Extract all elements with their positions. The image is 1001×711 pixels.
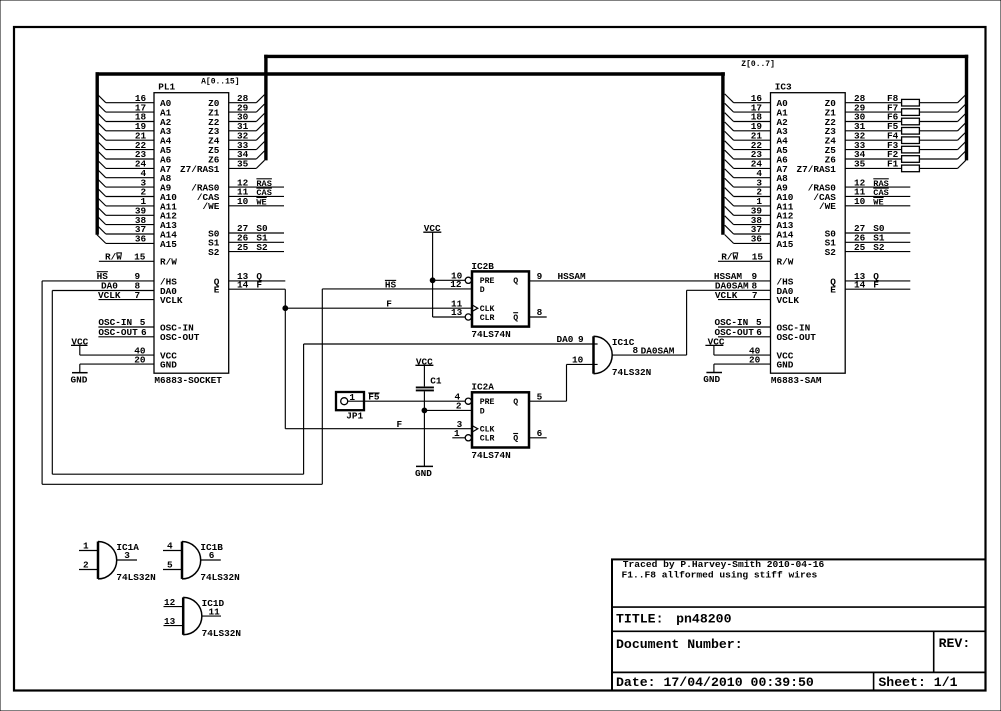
svg-text:D: D (480, 286, 485, 295)
svg-text:E: E (214, 285, 220, 296)
IC1D input pin 12 wire (164, 606, 184, 608)
svg-text:/WE: /WE (203, 201, 220, 212)
svg-text:8: 8 (135, 281, 141, 292)
net DA0SAM wire from IC1C pin 8 to IC3 DA0 pin 8 (612, 290, 770, 355)
svg-text:GND: GND (415, 468, 432, 479)
svg-text:HSSAM: HSSAM (558, 271, 587, 282)
svg-text:10: 10 (854, 196, 866, 207)
svg-text:20: 20 (134, 354, 146, 365)
IC1D output pin 11 stub (202, 615, 221, 617)
svg-text:Z7/RAS1: Z7/RAS1 (180, 164, 220, 175)
power VCC symbol at PL1 pin 40 (71, 336, 154, 356)
IC2B pin names PRE D CLK CLR Q Qbar (480, 277, 519, 323)
svg-text:IC1C: IC1C (612, 337, 635, 348)
svg-text:F: F (873, 279, 879, 290)
ground GND symbol at IC3 pin 20 (703, 354, 770, 385)
ground GND symbol at PL1 pin 20 (71, 354, 155, 385)
net stub F pin 14 (229, 279, 286, 290)
svg-text:4: 4 (167, 541, 173, 552)
net label DA0SAM at IC3 with pin 8 (715, 281, 758, 292)
svg-text:12: 12 (164, 597, 176, 608)
net stub WE pin 10 (229, 196, 284, 208)
junction at IC2A D branch (422, 408, 427, 413)
svg-text:10: 10 (572, 355, 584, 366)
svg-text:Z[0..7]: Z[0..7] (741, 60, 775, 69)
svg-text:Document Number:: Document Number: (616, 637, 743, 652)
svg-text:36: 36 (135, 234, 147, 245)
svg-text:CLR: CLR (480, 314, 495, 323)
svg-text:WE: WE (256, 198, 266, 208)
IC1B pin numbers 4 5 (167, 541, 173, 571)
svg-text:1: 1 (83, 541, 89, 552)
svg-text:15: 15 (752, 252, 764, 263)
IC1A input pin 1 wire (79, 550, 98, 552)
svg-text:35: 35 (854, 159, 866, 170)
IC3 OSC-OUT net label stub (715, 327, 771, 338)
IC3 OSC-IN net label stub (715, 317, 771, 328)
svg-text:25: 25 (237, 242, 249, 253)
net stub S2 pin 25 (229, 242, 284, 253)
IC3 R/W net label stub (718, 252, 771, 263)
svg-text:Q: Q (513, 314, 518, 323)
svg-text:25: 25 (854, 242, 866, 253)
svg-text:CLK: CLK (480, 426, 495, 435)
svg-text:PL1: PL1 (158, 82, 175, 93)
net label HS at PL1 (97, 271, 141, 282)
svg-text:OSC-OUT: OSC-OUT (160, 332, 200, 343)
svg-text:74LS32N: 74LS32N (116, 572, 156, 583)
svg-text:Sheet: 1/1: Sheet: 1/1 (878, 675, 957, 690)
svg-text:CLR: CLR (480, 435, 495, 444)
PL1 VCLK net label stub (98, 290, 154, 301)
IC3 net stub Q pin 13 (845, 271, 910, 282)
junction on net F at IC2B CLK branch (283, 306, 288, 311)
net label DA0 at PL1 (101, 281, 141, 292)
bus A[0..15] horizontal (96, 72, 725, 75)
OR gate IC1D (74LS32N) body (183, 597, 202, 634)
bus Z[0..7] vertical at IC3 F-links (965, 55, 968, 161)
svg-text:A15: A15 (777, 239, 794, 250)
IC2B Qbar pin 8 stub (529, 316, 547, 318)
IC2B CLR input bubble (465, 314, 471, 320)
IC1B input pin 4 wire (163, 550, 182, 552)
svg-text:GND: GND (777, 360, 794, 371)
IC1D pin numbers 12 13 (164, 597, 176, 627)
svg-text:13: 13 (164, 616, 176, 627)
PL1 address pins A0-A15 with bus entries, pin numbers 16..36 (97, 93, 177, 250)
svg-text:74LS74N: 74LS74N (471, 329, 511, 340)
svg-text:E: E (830, 285, 836, 296)
svg-text:Q: Q (513, 277, 518, 286)
svg-text:S2: S2 (256, 242, 268, 253)
IC3 net stub S2 pin 25 (845, 242, 910, 253)
svg-text:Traced by P.Harvey-Smith 2010-: Traced by P.Harvey-Smith 2010-04-16 (623, 559, 825, 570)
IC3 net stub CAS pin 11 (845, 187, 910, 199)
ground GND symbol below C1 (415, 466, 433, 479)
PL1 left pins R/W /HS DA0 VCLK OSC VCC GND names (160, 257, 200, 371)
svg-text:20: 20 (749, 354, 761, 365)
bus Z[0..7] vertical at PL1 (264, 55, 267, 161)
svg-text:3: 3 (124, 550, 130, 561)
IC3 VCLK net label stub (715, 290, 771, 301)
bus A[0..15] vertical at IC3 (721, 72, 724, 235)
svg-text:PRE: PRE (480, 398, 495, 407)
svg-text:OSC-OUT: OSC-OUT (98, 327, 138, 338)
OR gate IC1C (74LS32N) body (594, 336, 613, 373)
wire VCC to capacitor C1 (423, 365, 425, 386)
net stub RAS pin 12 (229, 177, 284, 189)
svg-text:F1: F1 (887, 159, 899, 170)
PL1 output pins Z0-Z7/RAS1 to bus Z, pin numbers 28..35 (229, 93, 265, 170)
svg-text:F: F (386, 298, 392, 309)
svg-text:IC2B: IC2B (471, 261, 494, 272)
IC2A PRE input bubble (465, 398, 471, 404)
IC3 net stub WE pin 10 (845, 196, 910, 208)
IC2A CLK edge triangle (472, 426, 478, 433)
svg-text:JP1: JP1 (346, 410, 363, 421)
IC2A CLR input bubble (465, 435, 471, 441)
net stub CAS pin 11 (229, 187, 284, 199)
svg-text:9: 9 (578, 334, 584, 345)
net label HS at IC2B (385, 279, 397, 290)
svg-text:7: 7 (752, 290, 758, 301)
svg-text:S2: S2 (208, 247, 220, 258)
IC3 output pins Z0-Z7 via stiff-wire links F8..F1 to bus Z (845, 93, 966, 172)
svg-text:F1..F8 allformed using stiff w: F1..F8 allformed using stiff wires (622, 570, 818, 581)
svg-text:14: 14 (237, 279, 249, 290)
svg-text:IC3: IC3 (775, 82, 792, 93)
svg-text:10: 10 (237, 196, 249, 207)
power VCC symbol above IC2B (423, 223, 441, 234)
IC IC3 (M6883-SAM) body (771, 93, 846, 374)
svg-text:6: 6 (141, 327, 147, 338)
IC3 left pins R/W /HS DA0 VCLK OSC VCC GND names (777, 257, 817, 371)
svg-text:Q: Q (513, 435, 518, 444)
svg-text:6: 6 (756, 327, 762, 338)
PL1 right pin names Z0-Z7 RAS CAS WE S0-S2 Q E (180, 98, 220, 296)
flip-flop IC2B (74LS74N) body (472, 271, 529, 326)
PL1 R/W net label stub (99, 252, 154, 263)
title block note text (622, 559, 825, 580)
PL1 OSC-OUT net label stub (98, 327, 154, 338)
svg-text:36: 36 (751, 234, 763, 245)
net DA0 wire from PL1 DA0 pin 8 around left to IC1C pin 9 (52, 291, 597, 475)
svg-text:74LS32N: 74LS32N (612, 367, 652, 378)
svg-text:REV:: REV: (939, 636, 971, 651)
IC3 net stub RAS pin 12 (845, 177, 910, 189)
wire VCC to IC2B PRE pin 10 and CLR pin 13 (433, 232, 466, 317)
IC2B pin numbers 10 12 11 13 9 8 (450, 271, 542, 319)
net stub Q pin 13 (229, 271, 286, 282)
junction at IC2B PRE (430, 278, 435, 283)
OR gate IC1B (74LS32N) body (182, 542, 201, 579)
svg-text:WE: WE (873, 198, 883, 208)
svg-text:M6883-SOCKET: M6883-SOCKET (154, 375, 222, 386)
svg-text:8: 8 (633, 345, 639, 356)
IC3 right pin names Z0-Z7 RAS CAS WE S0-S2 Q E (797, 98, 837, 296)
OR gate IC1A (74LS32N) body (98, 542, 117, 579)
net F5 wire from JP1 to IC2A PRE pin 4 (348, 400, 466, 402)
svg-text:R/W: R/W (777, 257, 794, 268)
IC1A pin numbers 1 2 (83, 541, 89, 571)
svg-text:DA0SAM: DA0SAM (641, 345, 675, 356)
svg-text:DA0: DA0 (557, 334, 574, 345)
svg-text:6: 6 (209, 550, 215, 561)
net stub S1 pin 26 (229, 233, 284, 244)
svg-text:GND: GND (71, 374, 88, 385)
svg-text:F: F (256, 279, 262, 290)
svg-text:/WE: /WE (819, 201, 836, 212)
IC3 net stub S1 pin 26 (845, 233, 910, 244)
wire IC2A Q pin 5 to IC1C pin 10 (529, 364, 598, 401)
wire C1 to GND with branch to IC2A D pin 2 (424, 391, 472, 466)
svg-text:74LS74N: 74LS74N (471, 450, 511, 461)
svg-text:S2: S2 (825, 247, 837, 258)
svg-text:9: 9 (537, 271, 543, 282)
IC2A CLR pin 1 stub (452, 437, 465, 439)
svg-text:A15: A15 (160, 239, 177, 250)
title block frame (612, 559, 986, 690)
IC3 address pins A0-A15 with bus entries, pin numbers 16..36 (725, 93, 794, 250)
svg-text:TITLE:: TITLE: (616, 611, 663, 626)
svg-text:14: 14 (854, 279, 866, 290)
svg-text:IC2A: IC2A (471, 382, 494, 393)
svg-text:D: D (480, 407, 485, 416)
IC PL1 (M6883-SOCKET) body (154, 93, 229, 374)
IC2A Qbar pin 6 stub (529, 437, 547, 439)
svg-text:M6883-SAM: M6883-SAM (771, 375, 822, 386)
IC1A input pin 2 wire (79, 569, 98, 571)
IC1B input pin 5 wire (163, 569, 182, 571)
svg-text:Z7/RAS1: Z7/RAS1 (797, 164, 837, 175)
net label DA0 at IC1C pin 9 (557, 334, 585, 345)
power VCC symbol at IC3 pin 40 (705, 336, 770, 356)
svg-text:R/W: R/W (160, 257, 177, 268)
svg-text:F: F (397, 419, 403, 430)
svg-text:VCLK: VCLK (777, 295, 800, 306)
svg-text:S2: S2 (873, 242, 885, 253)
svg-text:A[0..15]: A[0..15] (201, 77, 239, 86)
IC3 net stub S0 pin 27 (845, 223, 910, 234)
IC1A output pin 3 stub (117, 559, 137, 561)
IC2A pin names PRE D CLK CLR Q Qbar (480, 398, 519, 444)
net label F5 (368, 391, 380, 402)
net F wire from PL1 E pin 14 to IC2B CLK pin 11 and IC2A CLK pin 3 (285, 289, 472, 429)
PL1 OSC-IN net label stub (98, 317, 154, 328)
svg-text:VCLK: VCLK (160, 295, 183, 306)
svg-text:Q: Q (513, 398, 518, 407)
IC1D input pin 13 wire (164, 625, 184, 627)
IC2A pin numbers 4 2 3 1 5 6 (454, 391, 543, 439)
IC2B CLK edge triangle (472, 305, 478, 312)
svg-text:5: 5 (167, 560, 173, 571)
net stub S0 pin 27 (229, 223, 284, 234)
svg-text:Date: 17/04/2010 00:39:50: Date: 17/04/2010 00:39:50 (616, 675, 814, 690)
svg-text:GND: GND (160, 360, 177, 371)
IC2B PRE input bubble (465, 277, 471, 283)
svg-text:11: 11 (209, 606, 221, 617)
svg-text:GND: GND (703, 374, 720, 385)
svg-text:pn48200: pn48200 (676, 611, 731, 626)
svg-text:74LS32N: 74LS32N (200, 572, 240, 583)
jumper JP1 body (336, 392, 364, 410)
bus A[0..15] vertical at PL1 (95, 72, 98, 235)
IC3 net stub F pin 14 (845, 279, 910, 290)
svg-text:35: 35 (237, 159, 249, 170)
svg-text:OSC-OUT: OSC-OUT (777, 332, 817, 343)
IC1B output pin 6 stub (201, 559, 221, 561)
svg-text:74LS32N: 74LS32N (202, 628, 242, 639)
net label HSSAM at IC3 with pin 9 (714, 271, 758, 282)
net HS wire from PL1 /HS pin 9 around left to IC2B D pin 12 (42, 281, 472, 484)
capacitor C1 (416, 387, 434, 390)
power VCC symbol above C1 (415, 356, 433, 367)
bus Z[0..7] horizontal (264, 55, 968, 58)
net HSSAM wire from IC2B Q pin 9 to IC3 /HS pin 9 (529, 280, 771, 282)
svg-text:15: 15 (134, 252, 146, 263)
svg-text:2: 2 (83, 560, 89, 571)
svg-text:DA0: DA0 (101, 281, 118, 292)
svg-text:C1: C1 (430, 376, 442, 387)
svg-text:VCLK: VCLK (715, 290, 738, 301)
svg-text:CLK: CLK (480, 305, 495, 314)
flip-flop IC2A (74LS74N) body (472, 392, 529, 447)
